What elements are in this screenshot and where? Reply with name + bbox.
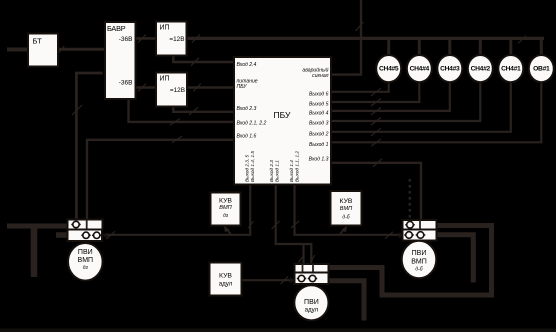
svg-text:-36В: -36В bbox=[119, 80, 133, 87]
branch arrow into KUV VMP dz bbox=[224, 226, 231, 235]
svg-text:Выход 3: Выход 3 bbox=[309, 121, 329, 127]
svg-text:адул: адул bbox=[219, 281, 233, 288]
svg-text:СН4#2: СН4#2 bbox=[471, 66, 491, 73]
wire KUV adul to center connector bbox=[242, 276, 292, 284]
sensor CH4#1 bbox=[498, 55, 523, 82]
PVI adul motor bbox=[294, 285, 328, 320]
wire IP2 to PBU pitanie bbox=[187, 84, 234, 92]
svg-text:Выход 1: Выход 1 bbox=[309, 142, 329, 148]
arrow into center connector bbox=[290, 277, 295, 283]
wire drop to CH4#1 bbox=[509, 38, 512, 55]
sensor CH4#5 bbox=[376, 55, 401, 82]
svg-text:ИП: ИП bbox=[160, 76, 170, 83]
wire drop to CH4#4 bbox=[418, 38, 421, 55]
svg-text:Выход 5: Выход 5 bbox=[309, 102, 329, 108]
svg-text:СН4#4: СН4#4 bbox=[410, 66, 430, 73]
wire drop to CH4#2 bbox=[479, 38, 482, 55]
arrow into left connector bbox=[102, 232, 107, 238]
svg-text:ПБУ: ПБУ bbox=[274, 110, 291, 120]
wire PBU vyhod 3 to CH4#2 bbox=[331, 82, 480, 125]
svg-text:Вход 2.1, 2.2: Вход 2.1, 2.2 bbox=[237, 120, 267, 126]
wire B PBU to center connector bbox=[272, 184, 315, 264]
svg-text:ПВИ: ПВИ bbox=[412, 250, 427, 257]
wire PBU alarm signal up bbox=[331, 0, 364, 75]
PVI VMP db motor bbox=[402, 241, 437, 278]
svg-text:Выход 1.1, 1.2: Выход 1.1, 1.2 bbox=[295, 151, 300, 182]
left connector bottom row bbox=[68, 230, 103, 242]
right connector bottom row bbox=[403, 230, 437, 241]
block KUV adul bbox=[210, 263, 242, 296]
center connector bottom row bbox=[295, 273, 329, 285]
bottom edge band bbox=[0, 329, 556, 332]
svg-text:=12В: =12В bbox=[170, 87, 185, 94]
svg-text:СН4#5: СН4#5 bbox=[379, 66, 399, 73]
svg-text:-36В: -36В bbox=[119, 36, 133, 43]
block BT bbox=[28, 34, 58, 67]
svg-text:СН4#1: СН4#1 bbox=[501, 66, 521, 73]
svg-text:ВМП: ВМП bbox=[219, 205, 232, 211]
left connector top row bbox=[68, 220, 103, 230]
thick cable right connector top to center connector top bbox=[329, 226, 492, 296]
block KUV VMP db bbox=[331, 191, 362, 226]
svg-text:СН4#3: СН4#3 bbox=[440, 66, 460, 73]
svg-text:ВМП: ВМП bbox=[78, 257, 94, 264]
svg-text:Вход 1.6: Вход 1.6 bbox=[237, 134, 257, 140]
svg-text:Выход 6: Выход 6 bbox=[309, 91, 329, 97]
right connector top row bbox=[403, 220, 437, 230]
center connector top row bbox=[295, 264, 329, 273]
wire input to BT bbox=[7, 48, 28, 52]
svg-text:д-б: д-б bbox=[342, 215, 349, 221]
wire drop to CH4#3 bbox=[448, 38, 451, 55]
svg-text:Выход 1.4, 1.5: Выход 1.4, 1.5 bbox=[250, 151, 255, 182]
svg-text:Выход 2.3, 5: Выход 2.3, 5 bbox=[245, 155, 250, 182]
svg-text:дз: дз bbox=[83, 265, 89, 271]
wire sensor power line bbox=[187, 34, 545, 43]
svg-text:КУВ: КУВ bbox=[219, 273, 232, 280]
wire C PBU to KUV VMP db and right connector bbox=[291, 184, 400, 239]
wire A PBU to KUV VMP dz and left connector bbox=[106, 184, 254, 239]
sensor CH4#3 bbox=[437, 55, 462, 82]
wire drop to CH4#5 bbox=[387, 38, 390, 55]
wire PBU vhod 1.3 to right connector bbox=[331, 159, 421, 220]
thick cable stub left connector bottom row bbox=[56, 232, 68, 238]
svg-text:БАВР: БАВР bbox=[107, 24, 126, 33]
sensor CH4#2 bbox=[468, 55, 493, 82]
svg-text:БТ: БТ bbox=[33, 37, 43, 46]
wire BAVR to IP1 bbox=[135, 34, 156, 42]
svg-text:Вход 2.4: Вход 2.4 bbox=[237, 62, 257, 68]
svg-text:КУВ: КУВ bbox=[219, 198, 232, 205]
svg-text:ОВ#1: ОВ#1 bbox=[533, 66, 550, 73]
wire PBU vyhod 5 to CH4#4 bbox=[331, 82, 419, 106]
thick cable right connector bottom down bbox=[437, 235, 474, 283]
sensor OB#1 bbox=[529, 55, 554, 82]
wire BAVR left to left connector bbox=[72, 73, 103, 220]
svg-text:Выход 4: Выход 4 bbox=[309, 110, 329, 116]
svg-text:ПВИ: ПВИ bbox=[304, 299, 319, 306]
block KUV VMP dz bbox=[211, 193, 241, 226]
svg-text:=12В: =12В bbox=[169, 36, 184, 43]
svg-text:дз: дз bbox=[223, 213, 229, 219]
svg-text:ВМП: ВМП bbox=[411, 258, 427, 265]
svg-text:Выход 1.1: Выход 1.1 bbox=[275, 160, 280, 182]
svg-text:сигнал: сигнал bbox=[312, 73, 328, 79]
svg-text:Выход 2: Выход 2 bbox=[309, 131, 329, 137]
wire IP2 to PBU vhod 2.3 bbox=[173, 106, 234, 115]
block BAVR bbox=[105, 22, 136, 99]
wire PBU vyhod 2 to CH4#1 bbox=[331, 82, 511, 136]
svg-text:КУВ: КУВ bbox=[340, 198, 353, 205]
svg-text:адул: адул bbox=[305, 307, 319, 314]
svg-text:Выход 2.3: Выход 2.3 bbox=[269, 160, 274, 182]
svg-text:д-б: д-б bbox=[415, 266, 422, 272]
svg-text:ПВИ: ПВИ bbox=[78, 249, 93, 256]
svg-text:ИП: ИП bbox=[160, 25, 170, 32]
wire PBU vyhod 6 to CH4#5 bbox=[331, 82, 389, 96]
block PBU bbox=[234, 57, 331, 185]
PVI VMP dz motor bbox=[68, 243, 103, 281]
thick cable branch down at left bbox=[31, 229, 38, 278]
thick cable center connector bottom down bbox=[329, 281, 365, 321]
wire BAVR bottom to PBU vhod 2.1 2.2 bbox=[129, 99, 235, 126]
svg-text:Вход 1.3: Вход 1.3 bbox=[309, 157, 329, 163]
svg-text:Вход 2.3: Вход 2.3 bbox=[237, 106, 257, 112]
wire PBU vyhod 4 to CH4#3 bbox=[331, 82, 450, 115]
block IP1 bbox=[156, 22, 187, 56]
wire IP1 to PBU vhod 2.4 bbox=[173, 55, 234, 65]
svg-text:ПБУ: ПБУ bbox=[237, 84, 248, 90]
dashed reserve line to right connector bbox=[409, 179, 411, 219]
branch arrow into KUV VMP db bbox=[340, 226, 348, 235]
block IP2 bbox=[156, 73, 187, 107]
svg-text:ВМП: ВМП bbox=[340, 206, 353, 212]
wire BAVR to IP2 bbox=[135, 84, 156, 92]
wire PBU vhod 1.6 to left connector bbox=[87, 136, 234, 219]
wire PBU vyhod 1 to OB#1 bbox=[331, 82, 541, 146]
arrow into right connector bbox=[399, 232, 404, 238]
sensor CH4#4 bbox=[407, 55, 432, 82]
thick cable left connector to left edge bbox=[7, 224, 68, 229]
wire BT to BAVR bbox=[58, 46, 106, 53]
svg-text:Выход 1.4: Выход 1.4 bbox=[289, 160, 294, 182]
wire drop to OB#1 bbox=[540, 38, 543, 55]
